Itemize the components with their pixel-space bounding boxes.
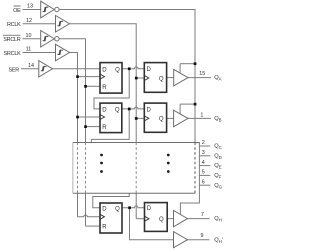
svg-text:R: R [102, 85, 107, 91]
svg-text:QH′: QH′ [214, 237, 223, 244]
svg-text:D: D [147, 107, 152, 113]
svg-text:14: 14 [28, 63, 34, 69]
svg-text:D: D [102, 206, 107, 212]
svg-text:Q: Q [115, 206, 120, 212]
svg-text:Q: Q [159, 117, 164, 123]
svg-text:QG: QG [214, 183, 222, 190]
svg-text:Q: Q [115, 67, 120, 73]
svg-text:6: 6 [202, 179, 205, 185]
svg-text:D: D [147, 206, 152, 212]
svg-text:D: D [102, 67, 107, 73]
svg-text:SER: SER [9, 67, 20, 73]
svg-text:11: 11 [26, 47, 32, 53]
svg-text:3: 3 [202, 150, 205, 156]
svg-text:QH: QH [214, 216, 222, 223]
svg-text:4: 4 [202, 160, 205, 166]
svg-text:Q: Q [159, 76, 164, 82]
svg-text:Q: Q [115, 108, 120, 114]
svg-text:5: 5 [202, 170, 205, 176]
svg-text:10: 10 [26, 33, 32, 39]
svg-text:Q: Q [159, 217, 164, 223]
svg-text:RCLK: RCLK [7, 22, 21, 28]
svg-text:9: 9 [201, 233, 204, 239]
svg-text:QA: QA [214, 75, 221, 82]
svg-text:QC: QC [214, 144, 222, 151]
svg-text:13: 13 [27, 4, 33, 10]
svg-text:QE: QE [214, 163, 221, 170]
svg-text:OE: OE [13, 8, 21, 14]
svg-text:1: 1 [200, 113, 203, 119]
svg-text:QB: QB [214, 116, 221, 123]
svg-text:12: 12 [26, 18, 32, 24]
svg-text:SRCLK: SRCLK [4, 51, 22, 57]
svg-text:QD: QD [214, 153, 222, 160]
svg-text:R: R [102, 225, 107, 231]
svg-text:15: 15 [199, 71, 205, 77]
svg-text:D: D [147, 67, 152, 73]
svg-text:SRCLR: SRCLR [3, 37, 21, 43]
svg-text:D: D [102, 108, 107, 114]
svg-text:R: R [102, 125, 107, 131]
svg-text:2: 2 [202, 140, 205, 146]
svg-text:QF: QF [214, 173, 221, 180]
svg-text:7: 7 [201, 212, 204, 218]
